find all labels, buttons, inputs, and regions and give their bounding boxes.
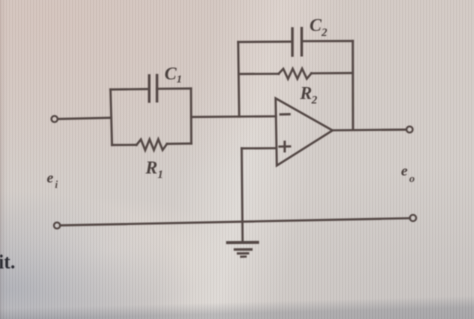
- wire C2 branch left: [238, 40, 292, 43]
- capacitor C1 right plate: [156, 75, 159, 101]
- svg-text:R: R: [145, 158, 158, 178]
- capacitor C2 left plate: [291, 29, 294, 56]
- wire C2 branch right: [302, 40, 353, 42]
- svg-text:i: i: [55, 180, 58, 191]
- resistor R2 zigzag: [279, 69, 312, 79]
- wire R2 branch left: [239, 73, 279, 75]
- wire feedback right vertical: [352, 41, 354, 129]
- svg-text:o: o: [409, 173, 415, 185]
- wire bottom edge right of R1: [167, 142, 191, 145]
- wire network to op-amp inverting input: [191, 115, 276, 118]
- network Z1 left edge: [111, 90, 113, 146]
- svg-text:1: 1: [158, 169, 164, 181]
- capacitor C1 left plate: [148, 76, 151, 102]
- svg-text:e: e: [401, 164, 408, 180]
- wire input to network: [58, 118, 111, 119]
- wire top edge right of C1: [157, 87, 191, 90]
- wire non-inverting input: [242, 147, 276, 149]
- network Z1 right edge: [190, 89, 193, 144]
- svg-text:e: e: [47, 171, 54, 187]
- op-amp minus sign: [281, 113, 290, 116]
- ground symbol: [228, 241, 258, 244]
- op-amp plus sign: [280, 145, 291, 148]
- svg-text:2: 2: [321, 27, 328, 39]
- wire ground vertical: [241, 148, 244, 242]
- output terminal eo: [407, 126, 413, 132]
- bottom-left terminal: [54, 222, 60, 228]
- bottom-right terminal: [410, 215, 416, 221]
- svg-text:it.: it.: [0, 253, 15, 274]
- wire top edge left of C1: [111, 88, 150, 91]
- wire bottom edge left of R1: [112, 144, 137, 146]
- svg-text:R: R: [299, 83, 312, 103]
- op-amp U1 triangle: [276, 98, 333, 165]
- bottom wire: [60, 218, 410, 225]
- wire R2 branch right: [311, 72, 352, 75]
- resistor R1 zigzag: [137, 139, 168, 150]
- wire feedback left vertical: [238, 42, 239, 117]
- svg-text:2: 2: [311, 95, 318, 107]
- capacitor C2 right plate: [300, 28, 303, 55]
- svg-text:1: 1: [177, 74, 183, 86]
- input terminal ei: [51, 116, 57, 122]
- wire op-amp output: [333, 129, 407, 132]
